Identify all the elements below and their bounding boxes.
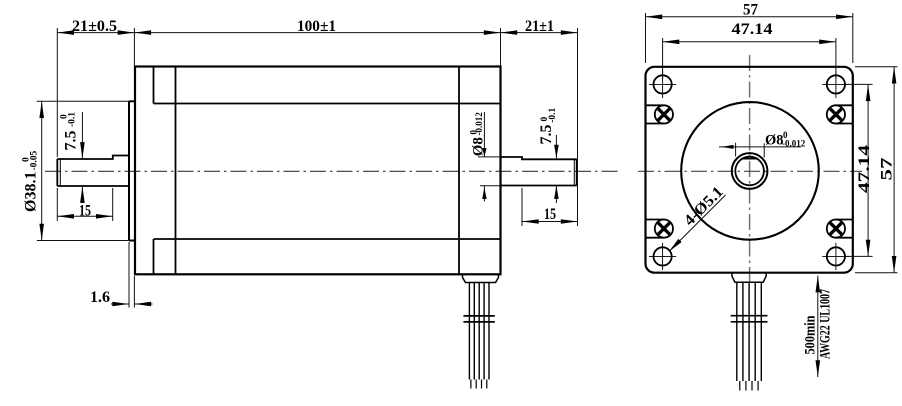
- svg-text:0: 0: [469, 130, 479, 135]
- label 4-Ø5.1: [669, 195, 726, 252]
- pilot boss: [129, 101, 135, 240]
- svg-text:100±1: 100±1: [297, 18, 336, 35]
- svg-text:57: 57: [743, 1, 758, 18]
- dim 7.5 front: [81, 112, 83, 203]
- svg-text:0: 0: [540, 117, 550, 122]
- dim 47.14 top: [663, 38, 836, 79]
- svg-text:500min: 500min: [803, 316, 819, 355]
- svg-text:0: 0: [22, 157, 32, 162]
- svg-text:47.14: 47.14: [856, 145, 873, 193]
- dim 100±1: [134, 32, 500, 34]
- svg-text:15: 15: [79, 203, 91, 220]
- centerline left view: [45, 170, 620, 172]
- svg-text:0: 0: [60, 114, 70, 119]
- mounting hole bottom-left: [649, 243, 676, 270]
- dim 500min wire length: [817, 276, 819, 377]
- motor body outline: [135, 67, 501, 275]
- dim 15 front: [57, 188, 112, 221]
- cover screw top-right: [827, 105, 853, 123]
- mounting hole bottom-right: [822, 243, 849, 270]
- mounting hole top-right: [822, 71, 849, 98]
- svg-text:1.6: 1.6: [90, 289, 110, 306]
- dim 21±0.5: [57, 28, 134, 221]
- svg-text:Ø8: Ø8: [471, 137, 487, 156]
- centerlines right view: [749, 55, 751, 283]
- svg-text:15: 15: [544, 206, 556, 223]
- svg-text:7.5: 7.5: [538, 125, 555, 145]
- svg-text:57: 57: [879, 158, 896, 181]
- dim 7.5 rear: [555, 135, 557, 203]
- svg-text:-0.012: -0.012: [782, 139, 806, 149]
- cover screw bottom-right: [827, 220, 853, 238]
- svg-text:AWG22 UL1007: AWG22 UL1007: [818, 289, 834, 359]
- dim 1.6: [111, 242, 153, 308]
- label Ø8-0.012 right view: [719, 143, 801, 158]
- flange square: [646, 67, 853, 273]
- svg-text:Ø8: Ø8: [765, 133, 784, 149]
- front shaft: [57, 156, 129, 187]
- svg-text:47.14: 47.14: [732, 21, 773, 38]
- dim 21±1: [501, 28, 578, 226]
- dim Ø38.1: [37, 101, 129, 240]
- svg-text:21±0.5: 21±0.5: [72, 18, 117, 35]
- cover screw top-left: [646, 105, 674, 123]
- svg-text:21±1: 21±1: [525, 18, 554, 35]
- shaft circles: [732, 153, 768, 189]
- lead wires right view: [731, 273, 768, 391]
- dim Ø8 side view: [478, 112, 501, 202]
- svg-text:Ø38.1: Ø38.1: [23, 172, 40, 212]
- dim 15 rear: [522, 188, 578, 226]
- rear shaft: [501, 157, 577, 186]
- mounting hole top-left: [649, 71, 676, 98]
- svg-text:7.5: 7.5: [63, 131, 80, 151]
- dim 57 right: [855, 67, 898, 273]
- lead wires left view: [463, 275, 499, 389]
- pilot circle: [681, 102, 819, 240]
- dim 47.14 right: [846, 84, 873, 256]
- dim 57 top: [646, 13, 853, 63]
- cover screw bottom-left: [646, 220, 674, 238]
